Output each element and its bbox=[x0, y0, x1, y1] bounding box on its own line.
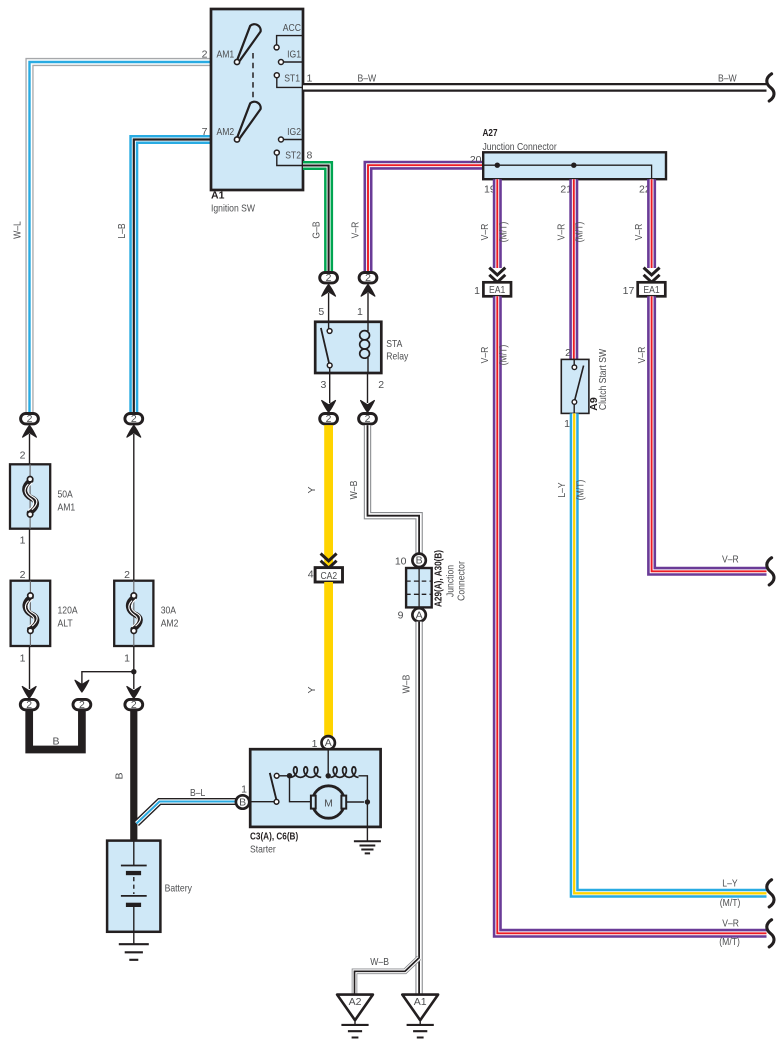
svg-text:5: 5 bbox=[318, 306, 324, 318]
label A27 / Junction Connector bbox=[483, 127, 558, 153]
fuse 120A ALT bbox=[11, 581, 78, 646]
relay output pin 2 bbox=[361, 373, 385, 412]
label L-B bbox=[116, 223, 128, 238]
starter field coil 1 bbox=[290, 767, 321, 778]
wire Y from relay to connector CA2 bbox=[324, 425, 333, 566]
label W-L bbox=[12, 221, 24, 239]
wire to relay pin 1 bbox=[357, 293, 368, 322]
svg-text:A1: A1 bbox=[211, 189, 225, 201]
svg-text:B–L: B–L bbox=[190, 787, 205, 799]
label STA Relay bbox=[386, 338, 409, 363]
junction connector A27 box bbox=[483, 152, 666, 179]
wire L-Y from clutch SW to right edge bbox=[574, 413, 766, 893]
pin 7 (AM2) bbox=[202, 126, 208, 138]
pin 1 clutch start SW bbox=[564, 418, 570, 430]
wire to relay pin 5 bbox=[318, 293, 328, 322]
battery ground bbox=[119, 944, 149, 960]
pin 19 label bbox=[484, 184, 496, 196]
svg-text:W–L: W–L bbox=[12, 221, 24, 239]
pin 20 label bbox=[470, 154, 482, 166]
svg-text:L–Y: L–Y bbox=[722, 878, 737, 890]
svg-text:V–R: V–R bbox=[479, 346, 491, 363]
svg-text:2: 2 bbox=[365, 272, 371, 284]
svg-text:A29(A), A30(B): A29(A), A30(B) bbox=[433, 550, 445, 607]
connector 2 (L-B) bbox=[125, 413, 143, 437]
svg-text:1: 1 bbox=[474, 285, 480, 297]
labels V-R (M/T) pin21 bbox=[555, 222, 585, 243]
svg-text:Ignition SW: Ignition SW bbox=[211, 202, 255, 214]
label Y (upper) bbox=[306, 486, 318, 493]
junction connector A29/A30 terminal B pin 10 bbox=[395, 554, 426, 568]
svg-text:ACC: ACC bbox=[283, 22, 302, 34]
wire to fuse AM2 with pin 2 bbox=[124, 434, 134, 581]
label A9 Clutch Start SW bbox=[588, 349, 609, 411]
svg-text:M: M bbox=[324, 797, 333, 809]
label B-W (left) bbox=[358, 73, 377, 85]
svg-text:EA1: EA1 bbox=[489, 284, 505, 296]
svg-text:1: 1 bbox=[124, 653, 130, 665]
starter terminal B pin 1 bbox=[236, 783, 249, 808]
connector 2 (B link) bbox=[73, 680, 91, 711]
connector EA1 chevrons (pin19) bbox=[489, 268, 505, 283]
label B bbox=[53, 735, 60, 747]
svg-text:Starter: Starter bbox=[250, 843, 276, 855]
svg-text:2: 2 bbox=[124, 569, 130, 581]
connector 2 (relay pin 2 out) bbox=[359, 413, 377, 425]
svg-text:V–R: V–R bbox=[555, 223, 567, 240]
svg-text:(M/T): (M/T) bbox=[497, 222, 509, 243]
svg-text:Y: Y bbox=[306, 486, 318, 493]
wire B-L battery to starter bbox=[137, 802, 237, 824]
wire V-R from A27 pin 22 to EA1 (17) bbox=[647, 179, 656, 268]
svg-text:B: B bbox=[53, 735, 60, 747]
switch lever AM2 bbox=[234, 102, 260, 142]
svg-text:2: 2 bbox=[131, 413, 137, 425]
svg-text:1: 1 bbox=[241, 783, 247, 795]
svg-text:STA: STA bbox=[386, 338, 402, 350]
node A27 pin 21 branch bbox=[571, 163, 576, 168]
svg-text:1: 1 bbox=[20, 534, 26, 546]
ground A2 bbox=[337, 995, 373, 1038]
wire V-R from junction connector A27 to STA relay connector bbox=[368, 165, 484, 271]
svg-text:10: 10 bbox=[395, 555, 407, 567]
label V-R right end bbox=[722, 553, 739, 565]
wire V-R from EA1 to right edge bbox=[497, 296, 766, 933]
fuse 30A AM2 bbox=[114, 581, 178, 646]
connector CA2 box pin 4 bbox=[308, 568, 343, 582]
wire G-B from ST2 to connector bbox=[303, 166, 329, 272]
wire W-L from ignition SW AM1 to fuse connector bbox=[30, 62, 212, 412]
starter node (field junction) bbox=[287, 773, 311, 802]
continuation symbol V-R mid bbox=[767, 558, 774, 585]
pin 22 label bbox=[639, 184, 651, 196]
terminal IG1 bbox=[279, 49, 304, 65]
labels V-R (M/T) below EA1 bbox=[479, 345, 509, 366]
pin 8 (ST2) bbox=[307, 150, 313, 162]
svg-text:A27: A27 bbox=[483, 127, 498, 139]
connector 2 (G-B) bbox=[320, 272, 338, 296]
starter internal ground bbox=[354, 841, 381, 853]
svg-text:3: 3 bbox=[320, 379, 326, 391]
svg-text:1: 1 bbox=[564, 418, 570, 430]
svg-text:B: B bbox=[239, 796, 246, 808]
connector 2 (relay pin 3 out) bbox=[320, 413, 338, 425]
connector 2 (V-R) bbox=[359, 272, 377, 296]
connector CA2 chevrons bbox=[321, 554, 337, 569]
connector 2 (W-L) bbox=[21, 413, 39, 437]
svg-text:A: A bbox=[416, 609, 423, 621]
label L-Y (M/T) right end bbox=[720, 878, 741, 909]
label V-R below EA1 17 bbox=[636, 346, 648, 363]
svg-text:V–R: V–R bbox=[722, 553, 739, 565]
svg-text:Connector: Connector bbox=[455, 561, 467, 601]
wire L-B from ignition SW AM2 to fuse connector bbox=[134, 140, 211, 413]
wire B-W from ST1 to right edge bbox=[303, 83, 767, 92]
wire fuse ALT to connector, pin 1 bbox=[20, 646, 36, 698]
terminal AM1 label bbox=[217, 48, 235, 60]
starter switch bbox=[249, 773, 287, 804]
label W-B (mid) bbox=[400, 675, 412, 694]
terminal IG2 bbox=[279, 126, 304, 142]
svg-text:V–R: V–R bbox=[722, 917, 739, 929]
svg-text:ST1: ST1 bbox=[284, 72, 300, 84]
connector EA1 box pin 1 bbox=[474, 282, 511, 297]
relay switch bbox=[321, 322, 332, 373]
svg-text:17: 17 bbox=[623, 285, 635, 297]
terminal ST1 bbox=[274, 72, 303, 87]
wire branch to middle connector bbox=[82, 672, 134, 690]
label W-B (upper) bbox=[348, 481, 360, 500]
junction connector A29(A), A30(B) box bbox=[406, 568, 432, 607]
node A27 pin 19 branch bbox=[495, 163, 500, 168]
label B-L bbox=[190, 787, 205, 799]
relay coil bbox=[360, 322, 370, 373]
label B-W (right) bbox=[718, 73, 737, 85]
svg-text:AM1: AM1 bbox=[58, 501, 76, 513]
svg-text:2: 2 bbox=[326, 272, 332, 284]
ignition switch A1 box bbox=[211, 9, 303, 190]
label W-B (bottom) bbox=[370, 956, 389, 968]
svg-text:(M/T): (M/T) bbox=[719, 936, 740, 948]
terminal ST2 bbox=[274, 150, 303, 166]
connector EA1 box pin 17 bbox=[623, 282, 666, 297]
label V-R (relay feed) bbox=[350, 221, 362, 238]
svg-text:ALT: ALT bbox=[58, 618, 74, 630]
connector 2 (ALT out) bbox=[20, 699, 38, 711]
svg-text:9: 9 bbox=[398, 609, 404, 621]
wire motor to ground node bbox=[346, 799, 370, 841]
svg-text:2: 2 bbox=[26, 699, 32, 711]
label A1 / Ignition SW bbox=[211, 189, 255, 214]
svg-text:Clutch Start SW: Clutch Start SW bbox=[597, 349, 609, 410]
svg-text:7: 7 bbox=[202, 126, 208, 138]
label Y (lower) bbox=[306, 686, 318, 693]
wire W-B from relay to junction connector A29/A30 bbox=[368, 425, 420, 554]
svg-text:ST2: ST2 bbox=[285, 150, 301, 162]
svg-text:2: 2 bbox=[20, 450, 26, 462]
continuation symbol L-Y bbox=[767, 880, 774, 907]
pin 2 (AM1) bbox=[202, 49, 208, 61]
ground A1 bbox=[402, 995, 438, 1038]
connector EA1 chevrons (pin22) bbox=[644, 268, 660, 283]
pin 2 clutch start SW bbox=[565, 347, 571, 359]
wire fuse AM1 to fuse ALT, pins 1,2 bbox=[20, 529, 30, 582]
wire V-R from EA1 17 to right edge bbox=[652, 296, 767, 571]
wire V-R from A27 pin 21 to clutch start SW bbox=[569, 179, 578, 359]
svg-text:AM1: AM1 bbox=[217, 48, 235, 60]
svg-text:1: 1 bbox=[20, 653, 26, 665]
svg-text:A1: A1 bbox=[414, 996, 427, 1008]
svg-text:50A: 50A bbox=[58, 488, 73, 500]
svg-text:Y: Y bbox=[306, 686, 318, 693]
wire Y from CA2 to starter terminal A bbox=[324, 582, 333, 736]
pin 21 label bbox=[560, 184, 572, 196]
svg-text:IG1: IG1 bbox=[287, 49, 301, 61]
wire from terminal A to coil node bbox=[326, 750, 331, 779]
wire B (thick) to battery bbox=[130, 711, 137, 842]
svg-text:30A: 30A bbox=[161, 605, 176, 617]
svg-text:C3(A), C6(B): C3(A), C6(B) bbox=[250, 830, 298, 842]
label V-R pin22 bbox=[633, 223, 645, 240]
svg-text:V–R: V–R bbox=[479, 223, 491, 240]
svg-text:A2: A2 bbox=[349, 996, 362, 1008]
svg-text:W–B: W–B bbox=[400, 675, 412, 694]
svg-text:4: 4 bbox=[308, 569, 314, 581]
svg-text:1: 1 bbox=[357, 306, 363, 318]
STA relay box bbox=[315, 322, 381, 373]
svg-text:2: 2 bbox=[378, 379, 384, 391]
svg-text:(M/T): (M/T) bbox=[497, 345, 509, 366]
continuation symbol B-W bbox=[767, 74, 774, 101]
switch lever AM1 bbox=[234, 24, 260, 64]
svg-text:IG2: IG2 bbox=[287, 126, 301, 138]
svg-text:2: 2 bbox=[20, 569, 26, 581]
fuse 50A AM1 bbox=[10, 464, 75, 528]
connector 2 (AM2 out) bbox=[125, 699, 143, 711]
svg-text:G–B: G–B bbox=[310, 221, 322, 238]
svg-text:W–B: W–B bbox=[348, 481, 360, 500]
label C3(A), C6(B) Starter bbox=[250, 830, 298, 855]
svg-text:B–W: B–W bbox=[358, 73, 377, 85]
terminal AM2 label bbox=[217, 126, 235, 138]
starter motor M bbox=[311, 786, 346, 818]
svg-text:L–B: L–B bbox=[116, 223, 128, 238]
svg-text:(M/T): (M/T) bbox=[574, 480, 586, 501]
wire fuse AM2 down with pin 1 and junction bbox=[124, 646, 141, 698]
wire to fuse AM1 with pin 2 bbox=[20, 434, 30, 464]
svg-text:(M/T): (M/T) bbox=[720, 897, 741, 909]
svg-text:Junction Connector: Junction Connector bbox=[483, 141, 558, 153]
svg-text:(M/T): (M/T) bbox=[574, 222, 586, 243]
svg-text:V–R: V–R bbox=[633, 223, 645, 240]
svg-text:2: 2 bbox=[326, 413, 332, 425]
svg-text:2: 2 bbox=[365, 413, 371, 425]
svg-text:8: 8 bbox=[307, 150, 313, 162]
svg-text:2: 2 bbox=[202, 49, 208, 61]
label A29(A), A30(B) Junction Connector bbox=[433, 550, 468, 607]
terminal ACC bbox=[274, 22, 303, 50]
svg-text:Relay: Relay bbox=[386, 351, 409, 363]
svg-text:V–R: V–R bbox=[636, 346, 648, 363]
svg-text:20: 20 bbox=[470, 154, 482, 166]
starter terminal A pin 1 bbox=[312, 736, 335, 750]
svg-text:Battery: Battery bbox=[165, 882, 193, 894]
svg-text:B: B bbox=[416, 555, 423, 567]
wire B link (thick) bbox=[29, 710, 82, 750]
wire W-B from junction connector to ground bbox=[415, 622, 422, 994]
wire V-R from A27 pin 19 to EA1 bbox=[493, 179, 502, 268]
continuation symbol V-R bottom bbox=[767, 920, 774, 947]
label G-B bbox=[310, 221, 322, 238]
starter field coil 2 bbox=[331, 767, 359, 778]
svg-text:A: A bbox=[325, 737, 332, 749]
svg-text:2: 2 bbox=[79, 699, 85, 711]
svg-text:V–R: V–R bbox=[350, 221, 362, 238]
svg-text:EA1: EA1 bbox=[643, 284, 659, 296]
labels V-R (M/T) pin19 bbox=[479, 222, 509, 243]
label B (battery feed) bbox=[114, 772, 126, 779]
relay output pin 3 bbox=[320, 373, 335, 412]
labels L-Y (M/T) bbox=[556, 480, 586, 501]
svg-text:2: 2 bbox=[27, 413, 33, 425]
junction connector A29/A30 terminal A pin 9 bbox=[398, 608, 426, 621]
svg-text:W–B: W–B bbox=[370, 956, 389, 968]
battery bbox=[107, 841, 160, 945]
svg-text:2: 2 bbox=[131, 699, 137, 711]
svg-text:L–Y: L–Y bbox=[556, 482, 568, 497]
svg-text:2: 2 bbox=[565, 347, 571, 359]
svg-text:CA2: CA2 bbox=[320, 570, 337, 582]
wire W-B branch to ground A2 bbox=[355, 958, 420, 994]
svg-text:B: B bbox=[114, 772, 126, 779]
clutch switch contacts and lever bbox=[572, 359, 583, 413]
wire coil to motor side bbox=[359, 776, 368, 802]
svg-text:AM2: AM2 bbox=[161, 618, 179, 630]
svg-text:AM2: AM2 bbox=[217, 126, 235, 138]
svg-text:120A: 120A bbox=[58, 605, 78, 617]
svg-text:B–W: B–W bbox=[718, 73, 737, 85]
starter C3(A), C6(B) box bbox=[250, 749, 380, 827]
label V-R (M/T) right end bbox=[719, 917, 740, 948]
pin 1 (ST1) bbox=[307, 73, 313, 85]
label Battery bbox=[165, 882, 193, 894]
clutch start switch A9 box bbox=[561, 359, 589, 413]
svg-text:1: 1 bbox=[307, 73, 313, 85]
